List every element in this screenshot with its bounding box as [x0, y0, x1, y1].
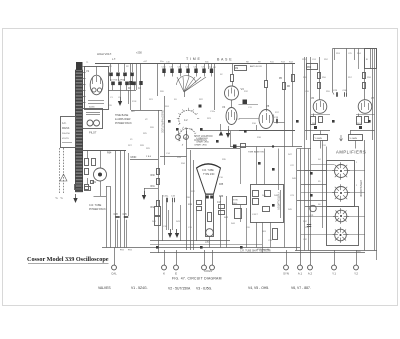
- svg-text:E: E: [175, 272, 177, 276]
- svg-text:~: ~: [55, 196, 58, 202]
- svg-text:V4: V4: [222, 105, 226, 109]
- svg-text:A.C.: A.C.: [62, 122, 67, 125]
- svg-text:23D: 23D: [205, 242, 210, 244]
- svg-text:SYN: SYN: [233, 200, 238, 202]
- svg-text:MAINS: MAINS: [62, 127, 70, 130]
- svg-text:X GAIN: X GAIN: [350, 137, 358, 140]
- svg-text:L.T.: L.T.: [112, 58, 116, 61]
- svg-text:Y GAIN: Y GAIN: [315, 137, 323, 140]
- svg-text:+250: +250: [136, 51, 142, 55]
- svg-text:VALVES: VALVES: [98, 286, 111, 290]
- svg-text:V1 - 5Z4G.: V1 - 5Z4G.: [131, 286, 148, 290]
- svg-text:TIME BASE: TIME BASE: [115, 114, 129, 117]
- svg-text:C26: C26: [123, 214, 128, 216]
- svg-text:R36: R36: [219, 196, 224, 198]
- svg-text:C.R. TUBE: C.R. TUBE: [89, 204, 102, 207]
- svg-text:V3 - 6J5G.: V3 - 6J5G.: [196, 287, 212, 291]
- svg-text:5Z 7S3 3,2P3A: 5Z 7S3 3,2P3A: [110, 78, 125, 81]
- svg-text:2 B.5: 2 B.5: [146, 156, 152, 158]
- svg-text:C17: C17: [217, 202, 222, 204]
- svg-text:TYPE 23D: TYPE 23D: [203, 173, 215, 176]
- svg-text:R31: R31: [151, 186, 156, 188]
- svg-text:R35: R35: [219, 184, 224, 186]
- svg-text:A.1: A.1: [298, 272, 303, 276]
- svg-text:SPOT LOCATION: SPOT LOCATION: [194, 135, 213, 138]
- svg-text:POWER PACK: POWER PACK: [115, 122, 132, 125]
- svg-text:C.R.T: C.R.T: [252, 214, 258, 216]
- svg-text:MOD: MOD: [131, 156, 137, 159]
- svg-text:FIG: FIG: [128, 250, 132, 252]
- svg-text:C12a: C12a: [210, 111, 216, 113]
- svg-text:CHART+R60: CHART+R60: [194, 144, 208, 147]
- svg-text:Cossor Model 339 Oscilloscope: Cossor Model 339 Oscilloscope: [27, 256, 109, 263]
- svg-text:4.2: 4.2: [184, 119, 188, 122]
- svg-text:CAL: CAL: [111, 272, 117, 276]
- svg-text:SYN: SYN: [132, 101, 137, 103]
- svg-text:V6, V7 - 887.: V6, V7 - 887.: [291, 286, 311, 290]
- svg-text:ATTENUATOR: ATTENUATOR: [359, 180, 362, 197]
- svg-text:V1: V1: [86, 69, 90, 73]
- svg-text:B A S E: B A S E: [217, 58, 232, 62]
- svg-text:AMPLIFIERS: AMPLIFIERS: [336, 150, 366, 155]
- svg-text:POWER PACK: POWER PACK: [89, 208, 106, 211]
- svg-text:Y.1: Y.1: [332, 272, 336, 276]
- svg-text:FIG: FIG: [120, 250, 124, 252]
- svg-text:V4, V5 - OH5.: V4, V5 - OH5.: [248, 286, 269, 290]
- svg-text:PILOT: PILOT: [89, 131, 97, 135]
- svg-text:1M: 1M: [235, 68, 238, 70]
- svg-text:ANTI-FLICK: ANTI-FLICK: [250, 65, 262, 68]
- svg-text:C15a: C15a: [163, 196, 169, 198]
- svg-text:~: ~: [60, 196, 63, 202]
- svg-text:FIG. 47. CIRCUIT DIAGRAM: FIG. 47. CIRCUIT DIAGRAM: [172, 277, 222, 281]
- svg-text:& AMPLIFIER: & AMPLIFIER: [115, 118, 131, 121]
- svg-text:T I M E: T I M E: [186, 57, 201, 61]
- svg-text:K: K: [163, 272, 165, 276]
- svg-text:R50: R50: [307, 67, 312, 69]
- svg-text:SYN: SYN: [283, 272, 289, 276]
- svg-text:SEL.: SEL.: [233, 203, 238, 205]
- svg-text:CONTROLS: CONTROLS: [194, 140, 207, 142]
- svg-text:C28: C28: [114, 214, 119, 216]
- svg-text:C.R. TUBE: C.R. TUBE: [202, 169, 214, 172]
- svg-text:COILS: COILS: [204, 269, 212, 273]
- svg-text:V2 - 5U7/150A: V2 - 5U7/150A: [168, 287, 191, 291]
- svg-text:HIGH VOLT.: HIGH VOLT.: [97, 52, 112, 56]
- svg-text:VOLTS: VOLTS: [62, 138, 69, 140]
- svg-text:R64: R64: [107, 152, 112, 155]
- svg-text:R61: R61: [92, 182, 97, 184]
- svg-text:SWEEP AMPLITUDE: SWEEP AMPLITUDE: [161, 110, 164, 133]
- svg-text:A.2: A.2: [308, 272, 313, 276]
- svg-text:SYN variable: SYN variable: [257, 248, 271, 251]
- svg-text:Y.2: Y.2: [354, 272, 358, 276]
- svg-text:200-250: 200-250: [62, 133, 70, 135]
- svg-text:R30: R30: [151, 175, 156, 177]
